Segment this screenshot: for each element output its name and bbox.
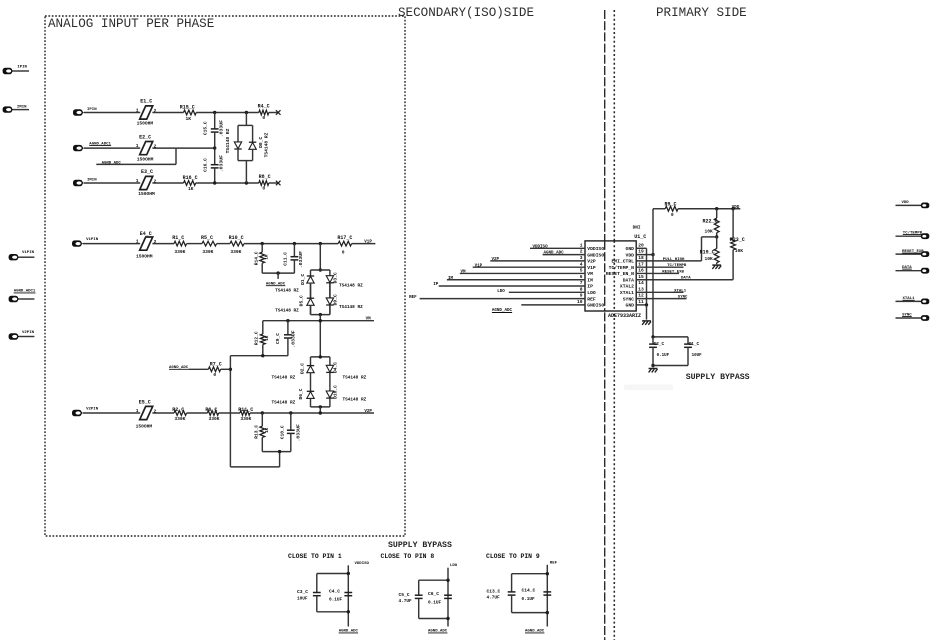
svg-text:C4_C: C4_C	[329, 588, 340, 594]
svg-text:E3_C: E3_C	[141, 169, 153, 175]
svg-text:.033UF: .033UF	[295, 424, 301, 441]
svg-text:18: 18	[638, 255, 644, 261]
svg-text:IM: IM	[448, 277, 454, 281]
svg-text:1K: 1K	[265, 335, 270, 341]
svg-text:0.1UF: 0.1UF	[329, 598, 343, 603]
svg-text:PULL_HIGH: PULL_HIGH	[663, 258, 685, 262]
svg-text:U1_C: U1_C	[634, 234, 646, 240]
svg-text:R22_C: R22_C	[703, 219, 718, 225]
svg-text:DNI: DNI	[633, 226, 641, 231]
svg-text:TC/TEMPB: TC/TEMPB	[667, 263, 687, 268]
svg-text:C2_C: C2_C	[654, 342, 665, 347]
svg-text:TS4148 RZ: TS4148 RZ	[343, 398, 367, 403]
svg-text:XTAL1: XTAL1	[674, 289, 687, 293]
svg-text:XTAL2: XTAL2	[620, 284, 634, 290]
svg-text:TS4148 RZ: TS4148 RZ	[272, 375, 296, 380]
svg-text:V2P: V2P	[364, 410, 372, 414]
svg-text:0.1UF: 0.1UF	[657, 354, 670, 358]
svg-text:D3_C: D3_C	[332, 272, 338, 283]
svg-text:V1PIN: V1PIN	[22, 251, 35, 255]
svg-text:10K: 10K	[705, 228, 714, 234]
svg-text:C15_C: C15_C	[203, 121, 209, 135]
svg-text:SECONDARY(ISO)SIDE: SECONDARY(ISO)SIDE	[398, 6, 534, 20]
svg-text:R4_C: R4_C	[258, 103, 270, 109]
svg-text:DATA: DATA	[623, 277, 634, 283]
svg-text:R19_C: R19_C	[700, 250, 715, 256]
svg-text:C1_C: C1_C	[689, 342, 700, 347]
svg-text:D5_C: D5_C	[298, 295, 304, 306]
svg-text:VDD: VDD	[626, 252, 635, 258]
svg-text:.033UF: .033UF	[219, 120, 225, 137]
svg-text:330K: 330K	[174, 416, 185, 422]
svg-text:DATA: DATA	[681, 277, 691, 281]
svg-text:IP: IP	[587, 284, 593, 290]
svg-text:AGND_ADC: AGND_ADC	[544, 252, 565, 256]
svg-text:R23_C: R23_C	[730, 237, 745, 243]
svg-text:IMIN: IMIN	[17, 105, 27, 109]
svg-text:1: 1	[136, 408, 139, 414]
svg-text:SUPPLY BYPASS: SUPPLY BYPASS	[388, 541, 452, 550]
svg-text:V1P: V1P	[475, 264, 483, 268]
svg-text:V1PIN: V1PIN	[86, 238, 99, 242]
svg-text:VM: VM	[587, 271, 593, 277]
svg-text:6: 6	[580, 274, 583, 280]
svg-text:4.7UF: 4.7UF	[487, 596, 501, 601]
svg-text:14: 14	[638, 280, 644, 286]
svg-text:R1_C: R1_C	[172, 235, 184, 241]
svg-text:150OHM: 150OHM	[136, 254, 153, 260]
svg-text:VDDISO: VDDISO	[533, 245, 549, 249]
svg-text:1: 1	[580, 242, 583, 248]
svg-text:2: 2	[580, 249, 583, 255]
svg-text:XTAL1: XTAL1	[620, 290, 634, 296]
svg-text:20: 20	[638, 242, 644, 248]
svg-text:CLOSE TO PIN 9: CLOSE TO PIN 9	[486, 553, 540, 560]
svg-text:REF: REF	[587, 296, 596, 302]
svg-text:9: 9	[580, 293, 583, 299]
svg-text:GND: GND	[626, 303, 635, 309]
svg-text:1K: 1K	[264, 254, 269, 260]
svg-text:RESET_EN_N: RESET_EN_N	[606, 271, 634, 277]
svg-text:10UF: 10UF	[297, 596, 308, 601]
svg-text:C14_C: C14_C	[522, 588, 536, 594]
svg-text:V2P: V2P	[492, 258, 500, 262]
svg-text:330K: 330K	[209, 416, 220, 422]
svg-text:VDD: VDD	[902, 201, 910, 205]
svg-text:TC/TEMP_N: TC/TEMP_N	[609, 265, 635, 271]
svg-text:SUPPLY BYPASS: SUPPLY BYPASS	[686, 373, 750, 382]
svg-text:1K: 1K	[186, 116, 192, 122]
svg-text:V2PIN: V2PIN	[86, 408, 99, 412]
svg-text:TS4148 RZ: TS4148 RZ	[343, 376, 367, 381]
svg-text:C5_C: C5_C	[399, 592, 410, 598]
svg-text:150OHM: 150OHM	[137, 156, 154, 162]
svg-text:IPIN: IPIN	[87, 108, 97, 112]
svg-text:SYNC: SYNC	[623, 296, 634, 302]
svg-text:R14_C: R14_C	[253, 251, 259, 265]
svg-text:D8_C: D8_C	[258, 137, 264, 148]
svg-text:0: 0	[671, 212, 674, 218]
svg-text:LDO: LDO	[587, 290, 596, 296]
svg-text:TS4148 RZ: TS4148 RZ	[263, 132, 269, 157]
svg-text:10K: 10K	[705, 256, 714, 262]
svg-text:1: 1	[136, 239, 139, 245]
svg-text:1: 1	[136, 143, 139, 149]
svg-text:TS4148 RZ: TS4148 RZ	[272, 400, 296, 405]
svg-text:0.1UF: 0.1UF	[428, 600, 442, 605]
svg-text:TS4148 RZ: TS4148 RZ	[339, 283, 363, 288]
svg-text:16: 16	[638, 268, 644, 274]
svg-text:.033UF: .033UF	[298, 251, 304, 268]
svg-text:D1_C: D1_C	[300, 274, 306, 285]
svg-text:12: 12	[638, 293, 644, 299]
svg-text:E5_C: E5_C	[139, 399, 151, 405]
svg-text:17: 17	[638, 261, 644, 267]
svg-text:.033UF: .033UF	[290, 330, 296, 347]
svg-text:C10_C: C10_C	[280, 425, 286, 439]
svg-text:C16_C: C16_C	[203, 158, 209, 172]
svg-text:REF: REF	[550, 561, 558, 565]
svg-text:D2_C: D2_C	[300, 363, 306, 374]
svg-text:VM: VM	[461, 271, 467, 275]
svg-text:R8_C: R8_C	[259, 174, 271, 180]
svg-text:R7_C: R7_C	[210, 361, 222, 367]
svg-text:0: 0	[342, 249, 345, 255]
svg-text:C13_C: C13_C	[487, 589, 501, 595]
svg-text:IPIN: IPIN	[17, 66, 27, 70]
svg-text:D6_C: D6_C	[298, 388, 304, 399]
svg-text:0: 0	[262, 185, 265, 191]
svg-text:D4_C: D4_C	[332, 362, 338, 373]
svg-text:V1P: V1P	[587, 265, 596, 271]
svg-text:330K: 330K	[230, 249, 241, 255]
svg-text:VDDISO: VDDISO	[587, 246, 604, 252]
svg-text:REF: REF	[409, 296, 417, 300]
svg-text:11: 11	[638, 299, 644, 305]
svg-text:1K: 1K	[188, 186, 194, 192]
svg-text:TS4148 RZ: TS4148 RZ	[225, 128, 231, 153]
svg-text:4: 4	[580, 261, 583, 267]
svg-text:E1_C: E1_C	[140, 99, 152, 105]
svg-text:150OHM: 150OHM	[136, 424, 153, 430]
svg-text:TS4148 RZ: TS4148 RZ	[339, 305, 363, 310]
svg-text:EMI_CTRL: EMI_CTRL	[611, 259, 634, 265]
svg-text:1K: 1K	[265, 427, 270, 433]
svg-text:1: 1	[136, 178, 139, 184]
svg-text:VDDISO: VDDISO	[355, 562, 370, 566]
svg-text:330K: 330K	[202, 249, 213, 255]
svg-text:GND: GND	[626, 246, 635, 252]
svg-text:1: 1	[136, 108, 139, 114]
svg-text:7: 7	[580, 280, 583, 286]
svg-text:R10_C: R10_C	[229, 235, 244, 241]
svg-text:.033UF: .033UF	[219, 155, 225, 172]
svg-text:330K: 330K	[174, 249, 185, 255]
svg-text:D10_C: D10_C	[332, 385, 338, 399]
svg-text:V2PIN: V2PIN	[22, 331, 35, 335]
svg-text:150OHM: 150OHM	[137, 121, 154, 127]
svg-text:10: 10	[577, 299, 583, 305]
svg-text:E4_C: E4_C	[140, 231, 152, 237]
svg-text:CLOSE TO PIN 1: CLOSE TO PIN 1	[288, 553, 342, 560]
svg-text:C6_C: C6_C	[428, 591, 439, 597]
svg-text:0: 0	[213, 372, 216, 378]
svg-text:RESET_EXB: RESET_EXB	[662, 270, 684, 274]
svg-text:R17_C: R17_C	[337, 235, 352, 241]
svg-text:0: 0	[262, 115, 265, 121]
svg-text:R12_C: R12_C	[253, 331, 259, 345]
svg-text:IM: IM	[587, 277, 593, 283]
svg-text:GNDISO: GNDISO	[587, 303, 604, 309]
svg-text:R5_C: R5_C	[201, 235, 213, 241]
svg-text:8: 8	[580, 286, 583, 292]
svg-text:TS4148 RZ: TS4148 RZ	[275, 309, 299, 314]
svg-text:13: 13	[638, 286, 644, 292]
svg-text:R13_C: R13_C	[254, 425, 260, 439]
svg-text:V1P: V1P	[364, 241, 372, 245]
svg-text:LDO: LDO	[497, 290, 505, 294]
svg-text:ADE7933ARIZ: ADE7933ARIZ	[608, 313, 641, 319]
svg-text:V2P: V2P	[587, 259, 596, 265]
svg-text:10K: 10K	[735, 248, 744, 254]
svg-text:C9_C: C9_C	[275, 333, 281, 344]
svg-text:LDO: LDO	[450, 564, 458, 568]
svg-text:15: 15	[638, 274, 644, 280]
svg-text:E2_C: E2_C	[139, 134, 151, 140]
svg-text:SYNC: SYNC	[678, 296, 688, 300]
svg-text:PRIMARY SIDE: PRIMARY SIDE	[656, 6, 747, 20]
svg-text:CLOSE TO PIN 8: CLOSE TO PIN 8	[381, 553, 435, 560]
svg-text:GNDISO: GNDISO	[587, 252, 604, 258]
svg-text:4.7UF: 4.7UF	[399, 599, 413, 604]
svg-text:0.1UF: 0.1UF	[522, 597, 536, 602]
svg-text:C3_C: C3_C	[297, 589, 308, 595]
svg-text:C11_C: C11_C	[283, 252, 289, 266]
svg-text:D9_C: D9_C	[332, 294, 338, 305]
svg-text:10UF: 10UF	[692, 354, 703, 358]
svg-text:IMIN: IMIN	[87, 178, 97, 182]
svg-text:330K: 330K	[240, 416, 251, 422]
svg-text:5: 5	[580, 268, 583, 274]
svg-text:IP: IP	[433, 283, 439, 287]
svg-text:VM: VM	[366, 318, 372, 322]
svg-text:ANALOG INPUT PER PHASE: ANALOG INPUT PER PHASE	[48, 17, 214, 31]
svg-text:150OHM: 150OHM	[138, 191, 155, 197]
svg-text:19: 19	[638, 249, 644, 255]
svg-text:3: 3	[580, 255, 583, 261]
svg-text:TS4148 RZ: TS4148 RZ	[275, 288, 299, 293]
